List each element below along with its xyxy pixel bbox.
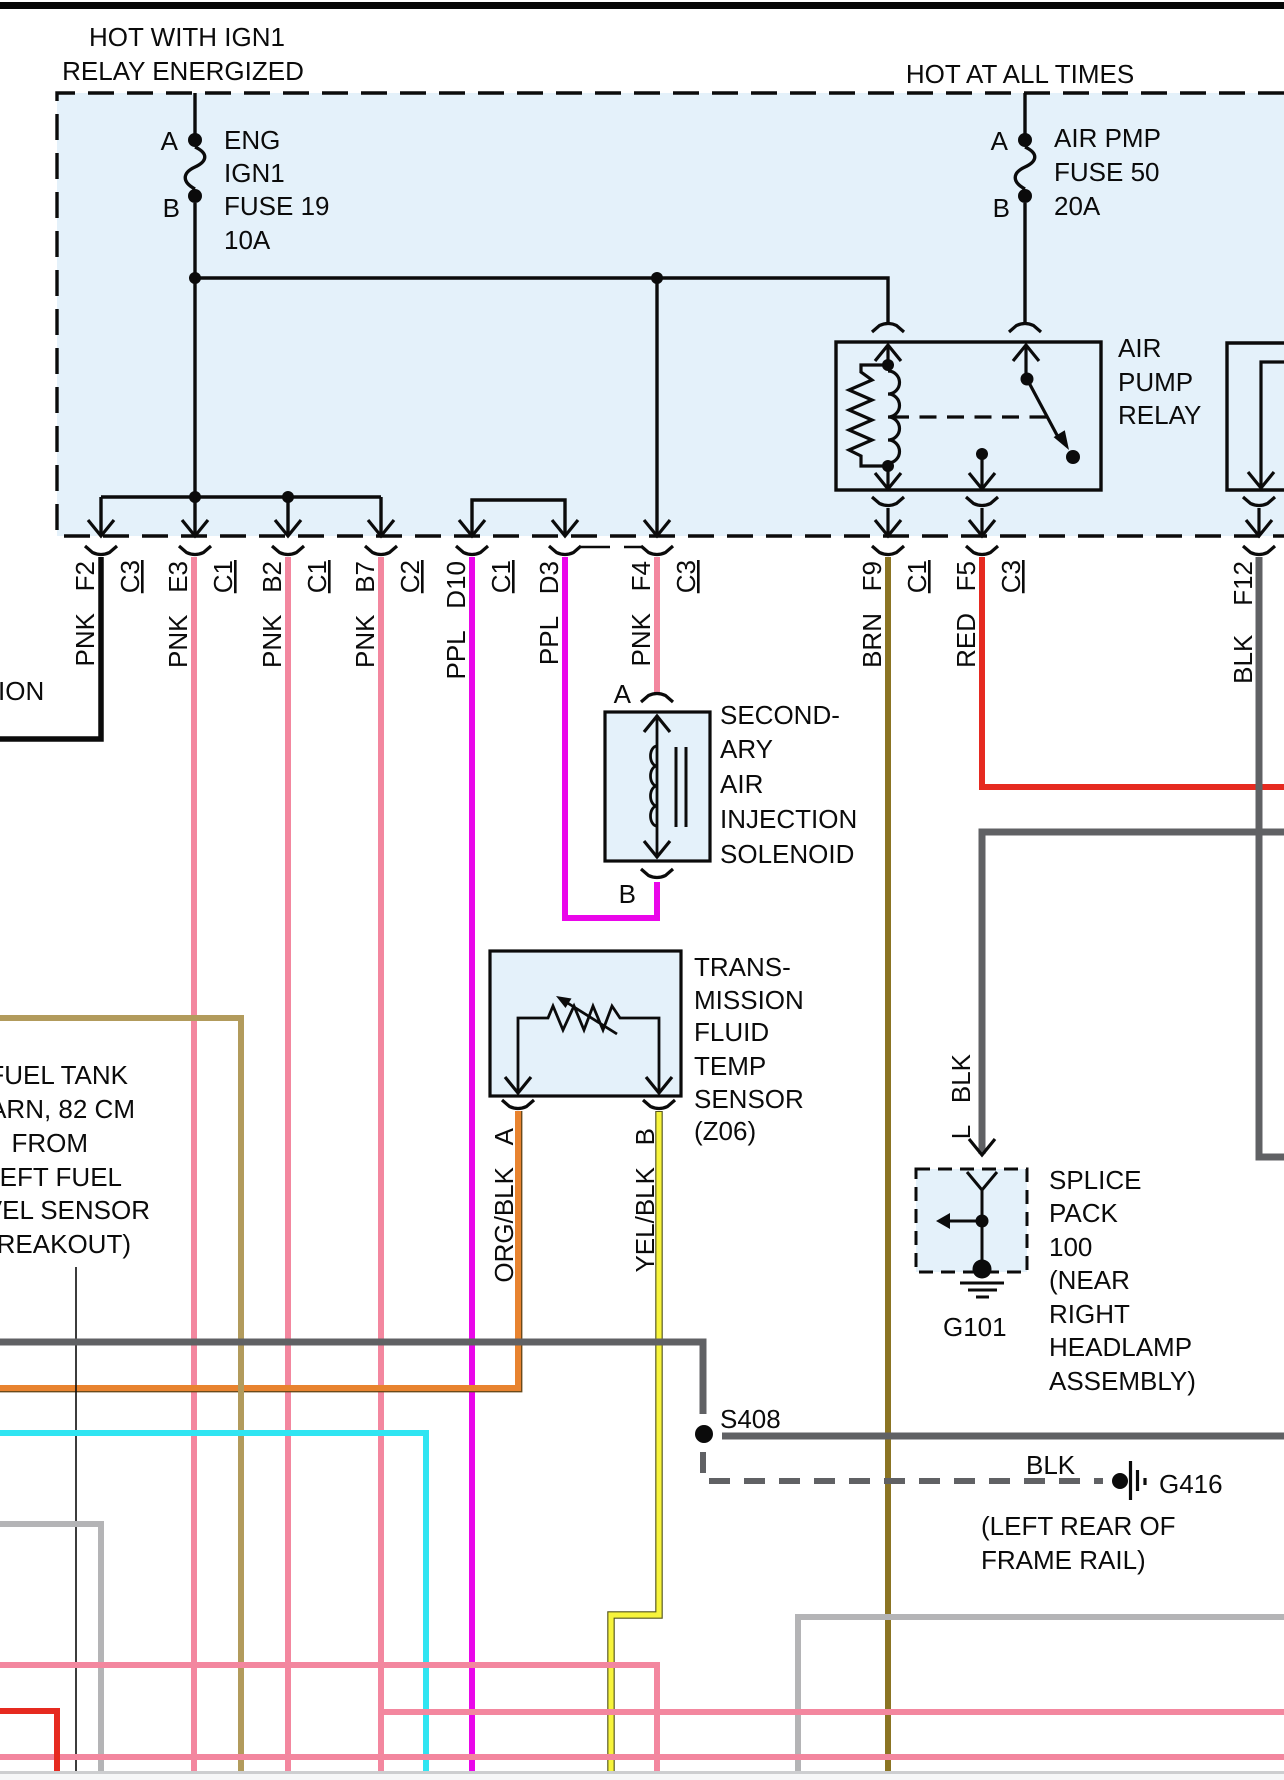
exit arrow pin F12 (1246, 520, 1272, 536)
wire PPL D3 to solenoid B (565, 557, 657, 918)
riser to lower bus (193, 278, 196, 497)
svg-text:TRANS-: TRANS- (694, 952, 791, 982)
svg-text:20A: 20A (1054, 191, 1101, 221)
wire PNK F2 (black drawn) (0, 557, 101, 739)
wire BLK dashed to G416 (703, 1452, 1103, 1481)
label pin F4 wire PNK (626, 561, 656, 666)
svg-text:ENG: ENG (224, 125, 280, 155)
connector C3 terminal F5 (966, 546, 998, 555)
svg-text:RED F5: RED F5 (951, 561, 981, 668)
wire PNK B2 (285, 557, 291, 1771)
label pin F9 wire BRN (857, 561, 887, 668)
svg-text:PNK F4: PNK F4 (626, 561, 656, 666)
svg-text:FUSE 50: FUSE 50 (1054, 157, 1160, 187)
ground G416 (1112, 1461, 1223, 1500)
fuse 50 labels (991, 123, 1161, 223)
svg-text:G101: G101 (943, 1312, 1007, 1342)
svg-text:PNK E3: PNK E3 (163, 561, 193, 668)
svg-text:LEFT FUEL: LEFT FUEL (0, 1162, 122, 1192)
svg-text:C2: C2 (395, 560, 425, 593)
wire YEL/BLK (black outline) (611, 1111, 659, 1771)
svg-text:C3: C3 (996, 560, 1026, 593)
svg-text:FLUID: FLUID (694, 1017, 769, 1047)
svg-text:C1: C1 (208, 560, 238, 593)
svg-text:PPL D10: PPL D10 (441, 561, 471, 680)
label connector C1 (486, 560, 516, 593)
solenoid labels (720, 700, 857, 869)
svg-text:TEMP: TEMP (694, 1051, 766, 1081)
wire BLK F12 (1259, 557, 1284, 1157)
fuse ENG IGN1 FUSE 19 10A (185, 93, 205, 278)
exit arrow pin E3 (182, 520, 208, 536)
svg-text:SENSOR: SENSOR (694, 1084, 804, 1114)
connector C1 terminal D10 (456, 546, 488, 555)
svg-text:S408: S408 (720, 1404, 781, 1434)
exit arrow pin F2 (88, 520, 114, 536)
wire pink horizontal 3 (0, 1754, 1284, 1760)
svg-text:C3: C3 (671, 560, 701, 593)
relay output pin (969, 448, 995, 489)
svg-text:RIGHT: RIGHT (1049, 1299, 1130, 1329)
wire red bottom left (0, 1711, 57, 1771)
connector C1 terminal B2 (272, 546, 304, 555)
exit arrow pin F9 (875, 520, 901, 536)
svg-text:C3: C3 (115, 560, 145, 593)
label connector C1 (902, 560, 932, 593)
label connector C3 (996, 560, 1026, 593)
wire cyan (0, 1433, 426, 1771)
connector terminal D3 (549, 546, 610, 555)
label pin F12 wire BLK (1228, 561, 1258, 684)
relay linkage (dashed) (892, 415, 1047, 418)
wire PNK B7 (378, 557, 384, 1771)
svg-text:(FUEL TANK: (FUEL TANK (0, 1060, 129, 1090)
label pin D3 wire PPL (534, 561, 564, 665)
svg-text:SOLENOID: SOLENOID (720, 839, 854, 869)
left text block: fuel tank harness note (0, 1060, 150, 1259)
bus wire from fuse 19 to relay coil (189, 272, 888, 322)
svg-text:ASSEMBLY): ASSEMBLY) (1049, 1366, 1196, 1396)
svg-text:PACK: PACK (1049, 1198, 1119, 1228)
svg-text:BRN F9: BRN F9 (857, 561, 887, 668)
top page bar (0, 2, 1284, 9)
sensor labels (694, 952, 804, 1146)
svg-text:PNK B7: PNK B7 (350, 561, 380, 668)
svg-text:ORG/BLK A: ORG/BLK A (489, 1127, 519, 1282)
leader line (75, 1267, 77, 1771)
svg-text:100: 100 (1049, 1232, 1092, 1262)
TRANSMISSION FLUID TEMP SENSOR (490, 951, 681, 1109)
svg-text:A: A (161, 126, 179, 156)
bracket bus for D10/D3 (472, 500, 565, 536)
wire silver right (798, 1617, 1284, 1771)
svg-text:PUMP: PUMP (1118, 367, 1193, 397)
svg-text:A: A (991, 126, 1009, 156)
wire BRN F9 (885, 557, 891, 1771)
sensor wire labels (489, 1127, 660, 1282)
label pin F5 wire RED (951, 561, 981, 668)
svg-text:AIR PMP: AIR PMP (1054, 123, 1161, 153)
wire dark gray to S408 (0, 1342, 703, 1414)
wire gray right from S408 (722, 1433, 1284, 1440)
lower distribution bus (101, 491, 381, 536)
svg-text:SECOND-: SECOND- (720, 700, 840, 730)
label pin F2 wire PNK (70, 561, 100, 666)
svg-text:MISSION: MISSION (694, 985, 804, 1015)
label connector C2 (395, 560, 425, 593)
label connector C1 (208, 560, 238, 593)
svg-text:(Z06): (Z06) (694, 1116, 756, 1146)
svg-text:C1: C1 (486, 560, 516, 593)
svg-text:PPL D3: PPL D3 (534, 561, 564, 665)
svg-text:RELAY: RELAY (1118, 400, 1201, 430)
svg-text:B: B (163, 193, 180, 223)
label connector C3 (671, 560, 701, 593)
fuse 19 labels (161, 125, 330, 255)
svg-text:B: B (993, 193, 1010, 223)
SECONDARY AIR INJECTION SOLENOID (605, 679, 710, 909)
svg-text:IGN1: IGN1 (224, 158, 285, 188)
svg-text:HOT AT ALL TIMES: HOT AT ALL TIMES (906, 59, 1134, 89)
label connector C1 (302, 560, 332, 593)
relay resistor (parallel with coil) (849, 365, 888, 466)
splice S408 (695, 1404, 781, 1443)
svg-text:C1: C1 (902, 560, 932, 593)
svg-text:AIR: AIR (1118, 333, 1161, 363)
connector C3 terminal F2 (85, 546, 117, 555)
relay coil (882, 359, 900, 472)
svg-text:BLK F12: BLK F12 (1228, 561, 1258, 684)
svg-text:PNK F2: PNK F2 (70, 561, 100, 666)
wire PPL D10 (469, 557, 475, 1771)
exit arrow pin F4 (644, 520, 670, 536)
label pin B7 wire PNK (350, 561, 380, 668)
relay bottom connectors to border (872, 497, 998, 534)
svg-text:B: B (619, 879, 636, 909)
svg-text:HEADLAMP: HEADLAMP (1049, 1332, 1192, 1362)
connector C3 terminal F4 (624, 546, 673, 555)
wire pink horizontal 1 (0, 1665, 657, 1771)
hot-at-all-times fuse block box (dashed, light blue) (57, 93, 1284, 536)
svg-text:HARN, 82 CM: HARN, 82 CM (0, 1094, 135, 1124)
svg-text:PNK B2: PNK B2 (257, 561, 287, 668)
svg-text:FROM: FROM (11, 1128, 88, 1158)
label pin B2 wire PNK (257, 561, 287, 668)
title: HOT WITH IGN1 RELAY ENERGIZED (62, 22, 304, 86)
AIR PUMP RELAY box (836, 333, 1201, 490)
connector terminal F12 (1243, 546, 1275, 555)
wire RED F5 (982, 557, 1284, 787)
svg-text:ARY: ARY (720, 734, 773, 764)
svg-text:A: A (614, 679, 632, 709)
connector C2 terminal B7 (365, 546, 397, 555)
exit arrow pin D10 (459, 520, 485, 536)
bottom page strip (0, 1771, 1284, 1774)
relay coil return pin (875, 466, 901, 489)
svg-text:BLK: BLK (1026, 1450, 1076, 1480)
svg-text:RELAY ENERGIZED: RELAY ENERGIZED (62, 56, 304, 86)
ground G101 (943, 1283, 1007, 1342)
wire ORG/BLK (0, 1111, 522, 1392)
wire tan fuel tank (0, 1018, 241, 1771)
connector C1 terminal F9 (872, 546, 904, 555)
relay coil pin (top left) (872, 324, 904, 366)
relay switch blade (1021, 373, 1081, 465)
exit arrow pin B2 (275, 520, 301, 536)
svg-text:LEVEL SENSOR: LEVEL SENSOR (0, 1195, 150, 1225)
partial component box at right edge (1227, 343, 1284, 534)
label connector C3 (115, 560, 145, 593)
wire pink horizontal 2 (381, 1709, 1284, 1715)
svg-text:AIR: AIR (720, 769, 763, 799)
wire BLK L (gray from right to splice pack) (946, 832, 1284, 1155)
svg-text:L BLK: L BLK (946, 1053, 976, 1139)
wire PNK E3 (191, 557, 197, 1771)
svg-text:SPLICE: SPLICE (1049, 1165, 1142, 1195)
svg-text:G416: G416 (1159, 1469, 1223, 1499)
drop to F4 (655, 278, 658, 536)
exit arrow pin F5 (969, 520, 995, 536)
svg-text:ION: ION (0, 676, 44, 706)
relay switch pin (top right) (1009, 324, 1041, 380)
wire silver left (0, 1524, 101, 1771)
connector C1 terminal E3 (179, 546, 211, 555)
svg-text:FRAME RAIL): FRAME RAIL) (981, 1545, 1146, 1575)
label pin D10 wire PPL (441, 561, 471, 680)
exit arrow pin B7 (368, 520, 394, 536)
svg-text:BREAKOUT): BREAKOUT) (0, 1229, 131, 1259)
svg-text:HOT WITH IGN1: HOT WITH IGN1 (89, 22, 285, 52)
splice pack labels (1049, 1165, 1196, 1396)
svg-text:C1: C1 (302, 560, 332, 593)
exit arrow pin D3 (552, 520, 578, 536)
fuse AIR PMP FUSE 50 20A (1015, 93, 1035, 322)
label pin E3 wire PNK (163, 561, 193, 668)
svg-text:(LEFT REAR OF: (LEFT REAR OF (981, 1511, 1176, 1541)
svg-text:10A: 10A (224, 225, 271, 255)
svg-text:INJECTION: INJECTION (720, 804, 857, 834)
SPLICE PACK 100 (916, 1169, 1027, 1279)
svg-text:(NEAR: (NEAR (1049, 1265, 1130, 1295)
wire PNK F4 to solenoid A (654, 557, 660, 693)
svg-text:FUSE 19: FUSE 19 (224, 191, 330, 221)
